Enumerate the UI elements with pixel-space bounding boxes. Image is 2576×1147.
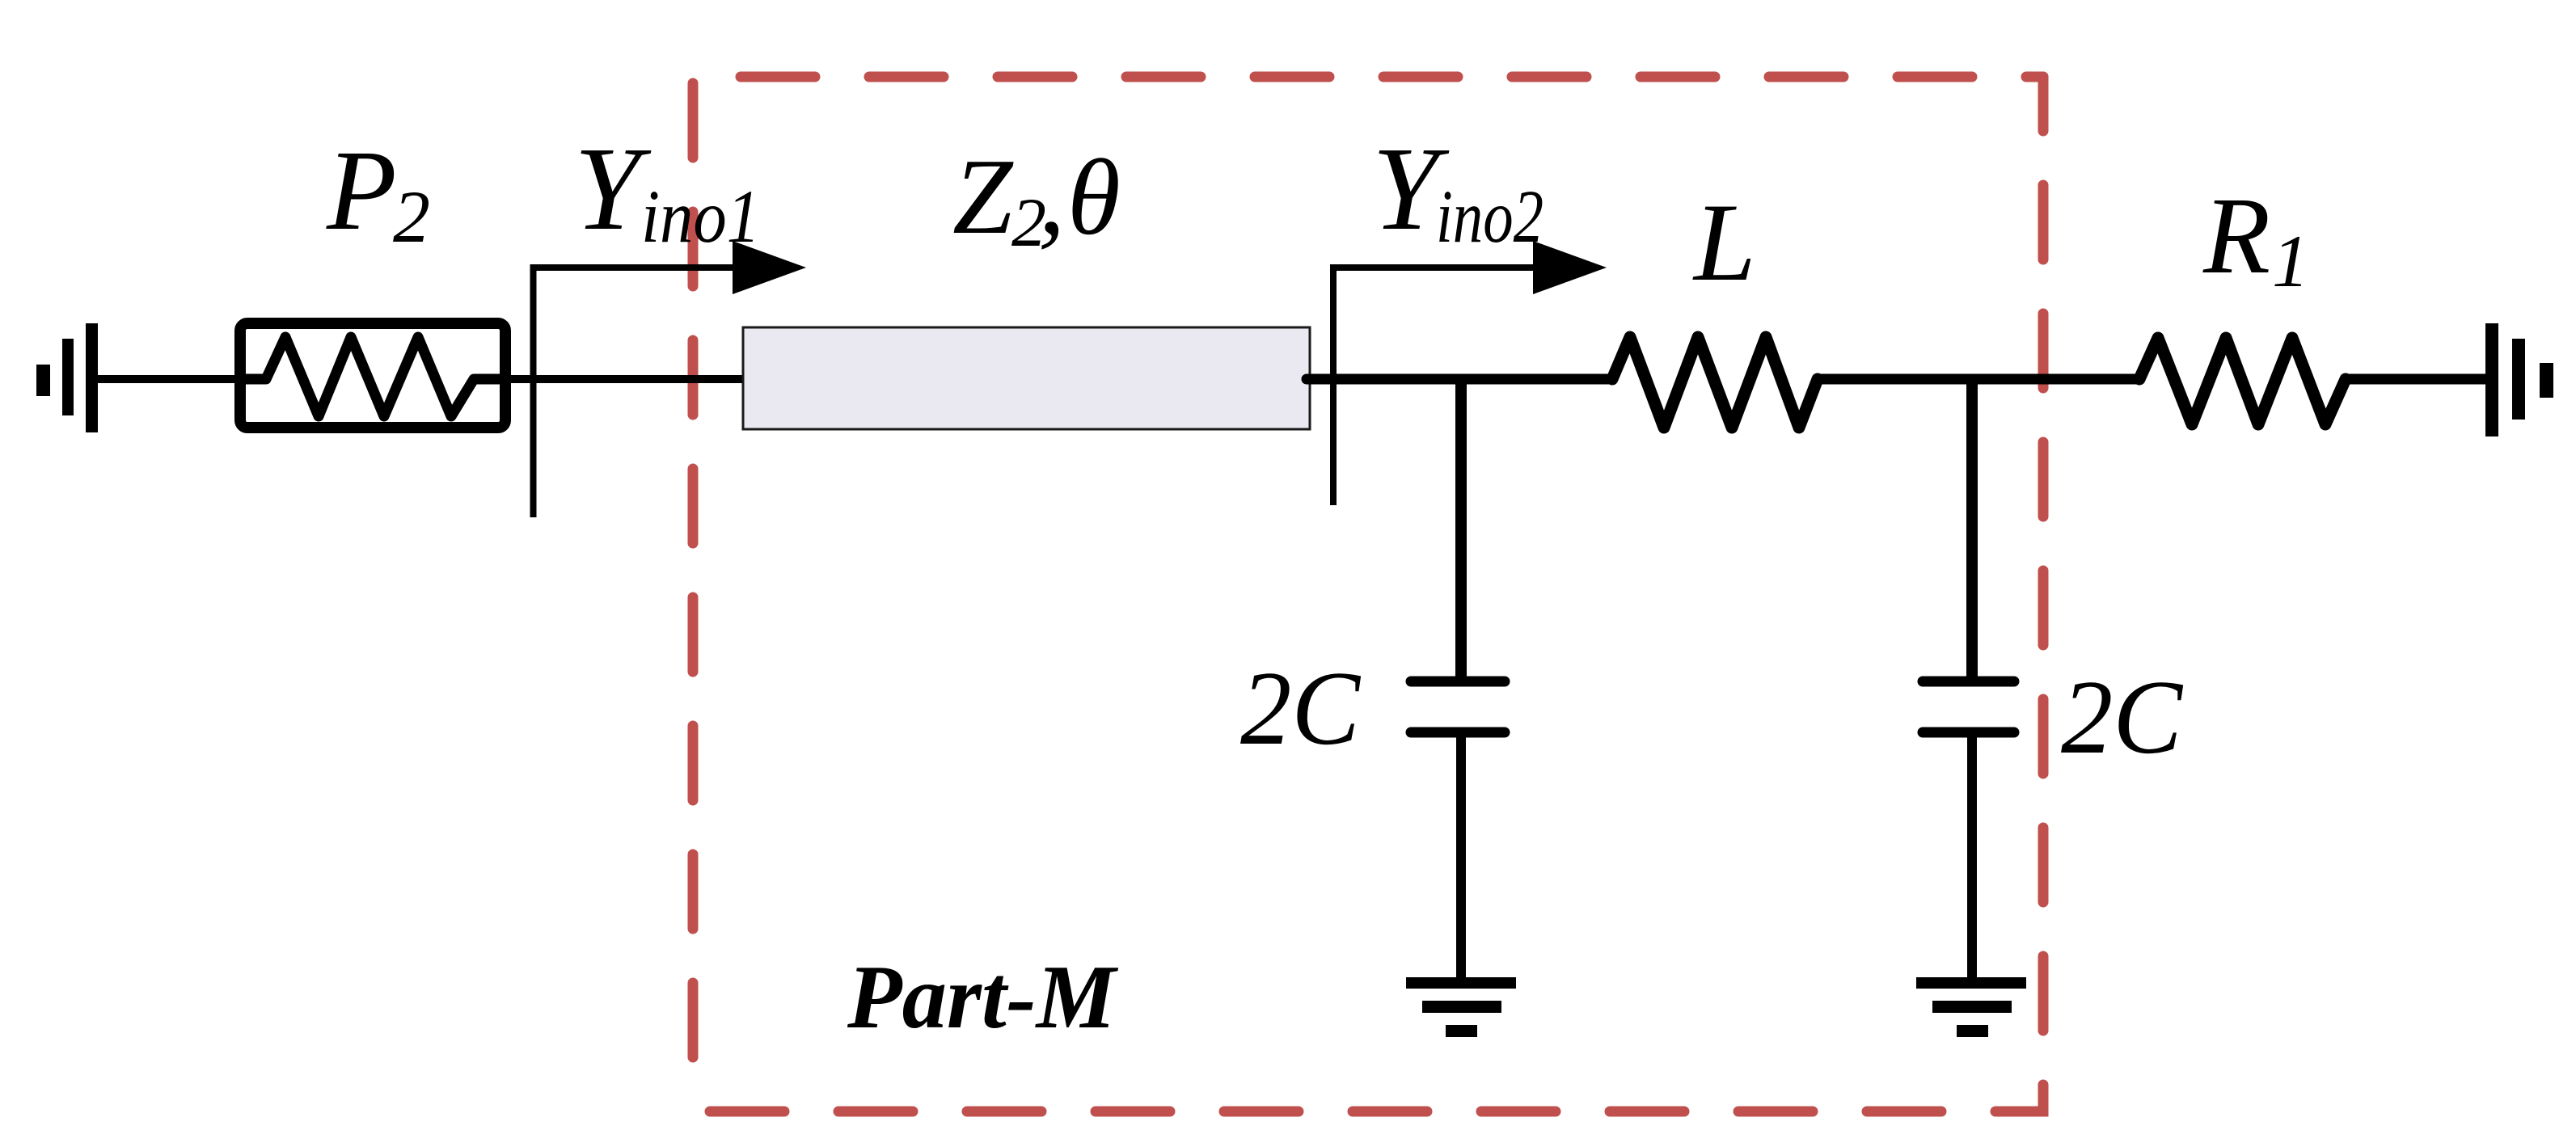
wire R1 to ground right [2346,374,2485,385]
svg-text:ino2: ino2 [1436,175,1543,259]
ground below capacitor 2 [1916,977,2026,1037]
ground left [36,323,98,432]
svg-text:Y: Y [574,123,652,255]
label P2 [326,126,430,258]
transmission line Z2 [743,327,1310,429]
wire transmission line to inductor L [1307,374,1612,385]
wire P2 to transmission line [505,375,750,383]
resistor R1 zigzag [2139,338,2346,424]
node junction 2 wire down [1966,379,1978,681]
dashed box Part-M top edge [741,72,2043,82]
label R1 [2202,175,2309,302]
svg-text:2: 2 [393,175,430,258]
svg-text:2C: 2C [2061,659,2184,776]
svg-text:2C: 2C [1240,650,1362,767]
port box P2 [240,323,505,428]
svg-text:Z: Z [952,137,1014,256]
label Yino1 [574,123,760,259]
resistor zigzag inside P2 [246,337,501,416]
dashed box Part-M right and bottom edges [693,77,2043,1111]
wire inductor to R1 [1818,374,2139,385]
wire capacitor 1 to ground [1456,732,1466,978]
svg-text:R: R [2202,175,2270,297]
svg-text:θ: θ [1067,137,1121,257]
svg-text:ino1: ino1 [641,175,760,259]
ground below capacitor 1 [1406,977,1516,1037]
label Z2,theta [952,137,1121,261]
reference plane line Yino1 with arrow [534,241,807,517]
capacitor 2C second [1923,681,2014,732]
wire ground-left to P2 [98,375,238,383]
svg-text:P: P [326,126,397,254]
node junction 1 wire down [1455,379,1467,681]
svg-text:Part-M: Part-M [847,947,1118,1048]
inductor L zigzag [1612,337,1818,428]
capacitor 2C first [1411,681,1505,732]
dashed box Part-M left edge [688,83,699,1107]
svg-text:L: L [1692,180,1756,304]
wire capacitor 2 to ground [1967,732,1977,978]
reference plane line Yino2 with arrow [1333,241,1607,505]
svg-text:1: 1 [2272,220,2309,302]
svg-text:,: , [1038,137,1066,256]
ground right [2485,323,2553,436]
label Yino2 [1372,123,1543,259]
